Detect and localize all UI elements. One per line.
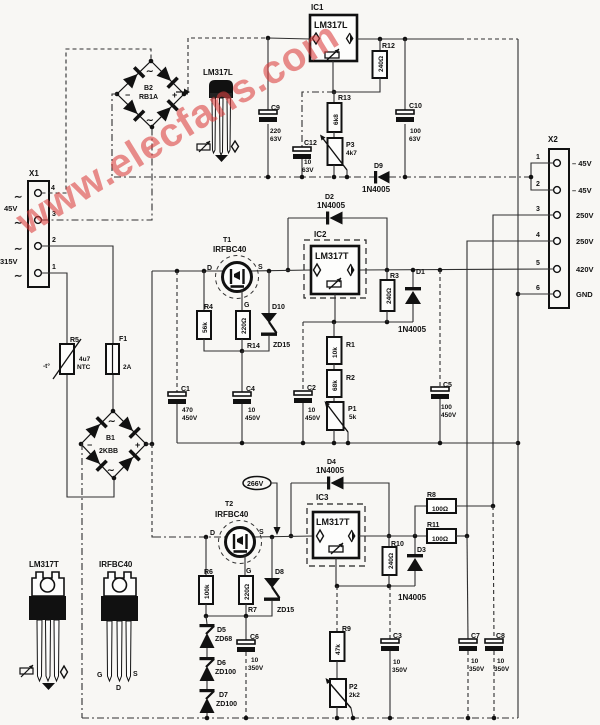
- svg-text:C7: C7: [471, 633, 480, 640]
- junction P2 wiper: [351, 716, 356, 721]
- capacitor C4 10/450V: [233, 351, 261, 443]
- svg-text:3: 3: [536, 206, 540, 213]
- junction C6 bottom: [244, 716, 249, 721]
- svg-text:RB1A: RB1A: [139, 94, 158, 101]
- B2 diode upper-right: [156, 66, 179, 89]
- svg-text:C5: C5: [443, 382, 452, 389]
- svg-text:100Ω: 100Ω: [432, 506, 448, 513]
- junction D4 anode on IC3 output: [387, 534, 392, 539]
- junction R8 right on pin3 riser: [491, 504, 496, 509]
- svg-text:-t°: -t°: [43, 362, 50, 370]
- svg-text:D1: D1: [416, 269, 425, 276]
- wire X2 pin6 GND: [518, 293, 554, 295]
- junction C12 bottom on rail: [300, 175, 305, 180]
- wire middle ground rail: [177, 442, 518, 444]
- svg-text:D: D: [210, 530, 215, 537]
- svg-text:1: 1: [52, 264, 56, 271]
- wire X1 pin1 to R5: [42, 273, 68, 344]
- LM317T package output arrow: [42, 683, 55, 690]
- svg-text:IC2: IC2: [314, 230, 327, 239]
- svg-text:D8: D8: [275, 569, 284, 576]
- svg-text:LM317T: LM317T: [29, 560, 59, 569]
- junction D2 cathode on IC2 input: [286, 268, 291, 273]
- svg-text:4u7: 4u7: [79, 356, 91, 363]
- svg-text:D7: D7: [219, 692, 228, 699]
- wire T2 drain rail: [154, 536, 226, 538]
- LM317L package adjust icon: [197, 144, 210, 150]
- svg-text:C10: C10: [409, 103, 422, 110]
- svg-text:2: 2: [536, 181, 540, 188]
- svg-text:D5: D5: [217, 627, 226, 634]
- svg-text:4: 4: [536, 232, 540, 239]
- IC1 adjust icon: [325, 52, 339, 58]
- svg-text:R8: R8: [427, 492, 436, 499]
- LM317T package input diamond: [61, 666, 68, 678]
- svg-text:ZD68: ZD68: [215, 636, 232, 643]
- resistor R5 NTC 4u7: [43, 337, 91, 379]
- svg-text:315V: 315V: [0, 257, 18, 266]
- svg-text:100Ω: 100Ω: [432, 536, 448, 543]
- svg-text:GND: GND: [576, 290, 593, 299]
- junction R3 bottom: [385, 320, 390, 325]
- junction C3 bottom: [388, 716, 393, 721]
- junction P1 bottom: [332, 441, 337, 446]
- junction C9 top: [266, 36, 271, 41]
- zener D10 ZD15: [242, 271, 290, 351]
- svg-text:10: 10: [304, 159, 312, 166]
- svg-text:∼: ∼: [14, 244, 22, 255]
- junction B1 right: [144, 442, 149, 447]
- svg-text:∼: ∼: [146, 66, 154, 76]
- potentiometer P3 4k7: [320, 135, 357, 178]
- svg-text:G: G: [246, 568, 252, 575]
- svg-text:R13: R13: [338, 95, 351, 102]
- potentiometer P1 5k: [325, 401, 357, 443]
- resistor R9 47k: [330, 586, 351, 679]
- transistor IRFBC40 TO-220 package drawing: [97, 560, 138, 692]
- svg-text:∼: ∼: [107, 465, 115, 475]
- svg-text:250V: 250V: [576, 211, 594, 220]
- IC2 output diamond: [351, 264, 355, 276]
- junction B2 left: [115, 92, 120, 97]
- junction C7 bottom: [466, 716, 471, 721]
- svg-text:1: 1: [536, 154, 540, 161]
- junction R6 top on drain rail: [204, 535, 209, 540]
- zener D6 ZD100: [200, 657, 237, 689]
- svg-text:6: 6: [536, 285, 540, 292]
- capacitor C2 10/450V: [294, 322, 321, 443]
- svg-text:68k: 68k: [332, 380, 339, 391]
- junction C8 bottom: [492, 716, 497, 721]
- diode D2 1N4005 across IC2: [288, 194, 387, 270]
- wire X1 pin3 to bridge B2 AC bottom: [42, 128, 153, 220]
- resistor R11 100R: [427, 522, 467, 543]
- svg-text:350V: 350V: [494, 666, 510, 673]
- diode D9 1N4005: [362, 163, 391, 194]
- svg-text:220Ω: 220Ω: [241, 318, 248, 334]
- junction GND riser / middle rail: [516, 441, 521, 446]
- resistor R12 240R: [334, 39, 395, 92]
- junction C9 bottom on rail: [266, 175, 271, 180]
- junction P3 wiper on rail: [345, 175, 350, 180]
- svg-text:350V: 350V: [469, 666, 485, 673]
- junction R10 bottom: [387, 584, 392, 589]
- svg-text:63V: 63V: [409, 136, 421, 143]
- capacitor C6 10/350V: [237, 616, 264, 718]
- svg-text:−: −: [87, 440, 92, 450]
- svg-text:10: 10: [393, 659, 401, 666]
- svg-text:C1: C1: [181, 386, 190, 393]
- svg-text:220Ω: 220Ω: [244, 584, 251, 600]
- svg-text:47k: 47k: [335, 644, 342, 655]
- svg-text:ZD100: ZD100: [215, 669, 236, 676]
- wire B1 plus node riser up to T1 drain rail: [146, 271, 152, 444]
- svg-text:10: 10: [248, 407, 256, 414]
- LM317L package output arrow: [215, 155, 228, 162]
- transistor T2 IRFBC40: [210, 501, 264, 575]
- junction B2 top: [149, 59, 154, 64]
- svg-text:D: D: [207, 265, 212, 272]
- svg-text:P3: P3: [346, 142, 355, 149]
- junction R6 bottom: [204, 614, 209, 619]
- svg-text:S: S: [259, 529, 264, 536]
- diode D4 1N4005 across IC3: [291, 459, 389, 536]
- svg-text:ZD100: ZD100: [216, 701, 237, 708]
- svg-text:100k: 100k: [204, 584, 211, 599]
- svg-text:X1: X1: [29, 169, 39, 178]
- svg-text:470: 470: [182, 407, 193, 414]
- svg-text:10: 10: [251, 657, 259, 664]
- resistor R6 100k: [199, 537, 213, 616]
- svg-text:ZD15: ZD15: [277, 607, 294, 614]
- node 266V callout: [243, 477, 281, 536]
- junction R14 bottom: [240, 349, 245, 354]
- capacitor C10 100/63V: [396, 39, 422, 177]
- op-amp regulator IC1 LM317L: [310, 3, 357, 61]
- transistor LM317T TO-220 package drawing: [20, 560, 68, 690]
- resistor R14 220R: [236, 311, 260, 351]
- LM317T package adjust icon: [20, 668, 33, 674]
- LM317L package input diamond: [232, 141, 239, 152]
- svg-text:C8: C8: [496, 633, 505, 640]
- resistor R7 220R: [239, 576, 257, 616]
- capacitor C3 10/350V: [381, 586, 408, 718]
- svg-text:1N4005: 1N4005: [398, 325, 427, 334]
- svg-text:ZD15: ZD15: [273, 342, 290, 349]
- svg-text:1N4005: 1N4005: [362, 185, 391, 194]
- resistor R2 68k: [327, 370, 355, 402]
- svg-text:G: G: [244, 302, 250, 309]
- svg-text:10: 10: [471, 658, 479, 665]
- svg-text:420V: 420V: [576, 265, 594, 274]
- junction adjust/R9: [335, 584, 340, 589]
- junction C4 bottom: [240, 441, 245, 446]
- capacitor C9 220/63V: [259, 38, 282, 177]
- svg-text:D6: D6: [217, 660, 226, 667]
- svg-text:10k: 10k: [332, 347, 339, 358]
- junction GND riser / pin6: [516, 292, 521, 297]
- svg-text:5k: 5k: [349, 414, 357, 421]
- svg-text:D2: D2: [325, 194, 334, 201]
- capacitor C1 470/450V: [168, 271, 198, 443]
- svg-text:10: 10: [497, 658, 505, 665]
- wire B1 plus riser down to T2 drain rail: [152, 444, 154, 537]
- svg-text:56k: 56k: [202, 322, 209, 333]
- transistor T1 IRFBC40: [207, 237, 263, 309]
- svg-text:−: −: [125, 90, 130, 100]
- svg-text:LM317T: LM317T: [315, 251, 349, 261]
- svg-text:250V: 250V: [576, 237, 594, 246]
- svg-text:IRFBC40: IRFBC40: [99, 560, 133, 569]
- svg-text:∼: ∼: [14, 271, 22, 282]
- svg-text:C2: C2: [307, 385, 316, 392]
- svg-text:T1: T1: [223, 237, 231, 244]
- svg-text:63V: 63V: [302, 167, 314, 174]
- svg-text:6k8: 6k8: [333, 114, 340, 125]
- junction bracket / rail: [529, 175, 534, 180]
- wire B2 plus to IC1 input: [184, 38, 268, 94]
- junction R11 right on pin4 riser: [465, 534, 470, 539]
- wire IC2 adjust rail: [303, 321, 413, 323]
- svg-text:D10: D10: [272, 304, 285, 311]
- junction D2 anode on IC2 output: [385, 268, 390, 273]
- wire T2 gate down: [244, 554, 246, 576]
- wire X2 pin5 420V from IC2 output: [359, 269, 554, 270]
- fuse F1 2A: [106, 336, 132, 374]
- junction D1 top on output: [411, 268, 416, 273]
- junction B1 left: [79, 442, 84, 447]
- svg-text:P1: P1: [348, 406, 357, 413]
- svg-text:R9: R9: [342, 626, 351, 633]
- IC3 output diamond: [352, 530, 356, 542]
- svg-text:D: D: [116, 685, 121, 692]
- wire IC1 output to GND riser: [357, 38, 460, 40]
- svg-text:2KBB: 2KBB: [99, 448, 118, 455]
- wire B1 minus down to ground rail: [81, 444, 82, 718]
- svg-text:R2: R2: [346, 375, 355, 382]
- junction C1 top on drain rail: [175, 269, 180, 274]
- svg-text:450V: 450V: [245, 415, 261, 422]
- svg-text:R3: R3: [390, 273, 399, 280]
- svg-text:+: +: [135, 440, 140, 450]
- svg-text:– 45V: – 45V: [572, 186, 592, 195]
- junction D4 cathode on IC3 input: [289, 534, 294, 539]
- annotation arrow left of package: [176, 91, 184, 93]
- junction R7 bottom: [244, 614, 249, 619]
- svg-text:1N4005: 1N4005: [317, 201, 346, 210]
- junction B2 right: [182, 92, 187, 97]
- B1 diode upper-right: [118, 416, 141, 439]
- svg-text:10: 10: [308, 407, 316, 414]
- junction C10 top: [403, 37, 408, 42]
- IC2 adjust icon: [327, 281, 341, 287]
- svg-text:X2: X2: [548, 135, 558, 144]
- svg-text:240Ω: 240Ω: [378, 56, 385, 72]
- resistor R10 240R: [383, 536, 404, 586]
- svg-text:B1: B1: [106, 435, 115, 442]
- junction R12 top: [378, 37, 383, 42]
- svg-text:2A: 2A: [123, 364, 132, 371]
- svg-text:266V: 266V: [247, 481, 264, 488]
- wire T1 gate down: [241, 289, 243, 311]
- svg-text:R6: R6: [204, 569, 213, 576]
- svg-text:R1: R1: [346, 342, 355, 349]
- svg-text:1N4005: 1N4005: [316, 466, 345, 475]
- svg-text:LM317T: LM317T: [316, 517, 350, 527]
- junction C5 top / pin5: [438, 268, 443, 273]
- wire minus45V rail from B2 minus: [112, 94, 374, 177]
- svg-text:IC1: IC1: [311, 3, 324, 12]
- wire X1 pin2 to fuse F1 to bridge B1 AC top: [42, 246, 114, 344]
- junction B2 bottom: [150, 125, 155, 130]
- svg-text:R10: R10: [391, 541, 404, 548]
- svg-text:R11: R11: [427, 522, 440, 529]
- capacitor C7 10/350V: [459, 536, 485, 718]
- capacitor C8 10/350V: [485, 506, 510, 718]
- connector X1: [0, 169, 56, 287]
- junction P1 wiper: [346, 441, 351, 446]
- svg-text:P2: P2: [349, 684, 358, 691]
- op-amp regulator IC2 LM317T: [304, 230, 366, 298]
- wire T1 drain rail: [152, 270, 223, 272]
- svg-text:R4: R4: [204, 304, 213, 311]
- potentiometer P2 2k2: [326, 678, 361, 718]
- wire ground bottom rail: [82, 717, 518, 719]
- svg-text:R5: R5: [70, 337, 79, 344]
- svg-text:C6: C6: [250, 634, 259, 641]
- wire IC2 adjust down: [334, 294, 336, 322]
- svg-text:220: 220: [270, 128, 281, 135]
- svg-text:450V: 450V: [182, 415, 198, 422]
- svg-text:NTC: NTC: [77, 364, 91, 371]
- svg-text:G: G: [97, 672, 103, 679]
- junction R4 top on drain rail: [202, 269, 207, 274]
- IC3 input diamond: [317, 530, 324, 542]
- bridge rectifier B1 2KBB: [81, 411, 146, 478]
- diode D3 1N4005 output to adj: [398, 536, 427, 602]
- resistor R13 6k8: [328, 92, 351, 138]
- resistor R8 100R: [415, 492, 493, 536]
- wire X2 pin4 250V: [467, 241, 554, 536]
- svg-text:2: 2: [52, 237, 56, 244]
- svg-text:D3: D3: [417, 547, 426, 554]
- wire ground riser (GND net to X2 pin6 and IC1 output): [517, 39, 519, 718]
- B1 diode lower-right: [118, 449, 141, 472]
- wire minus45V rail right of D9 to X2 bracket: [389, 176, 531, 178]
- svg-text:IC3: IC3: [316, 493, 329, 502]
- bridge rectifier B2 RB1A: [117, 61, 184, 127]
- svg-text:350V: 350V: [248, 665, 264, 672]
- wire T1 source to IC2 input: [251, 270, 311, 271]
- svg-text:R7: R7: [248, 607, 257, 614]
- B1 diode upper-left: [85, 416, 108, 439]
- diode D1 1N4005 output to adj: [398, 269, 427, 334]
- svg-text:63V: 63V: [270, 136, 282, 143]
- B2 diode lower-left: [123, 99, 146, 122]
- junction D8 top on source wire: [270, 535, 275, 540]
- junction D7 bottom on ground rail: [205, 716, 210, 721]
- junction P3 bottom: [332, 175, 337, 180]
- B2 diode upper-left: [123, 66, 146, 89]
- wire X2 pin3 250V: [493, 215, 554, 506]
- resistor R1 10k: [327, 322, 355, 370]
- junction R1 top: [332, 320, 337, 325]
- junction C10 bottom on rail: [403, 175, 408, 180]
- junction B1 plus: [150, 442, 155, 447]
- junction D3 top / R8 riser on output: [413, 534, 418, 539]
- svg-text:5: 5: [536, 260, 540, 267]
- zener D7 ZD100: [200, 689, 238, 718]
- wire IC1 adjust pin down: [332, 61, 334, 92]
- wire X2 pins1-2 bracket (minus45V): [531, 163, 554, 190]
- svg-text:1N4005: 1N4005: [398, 593, 427, 602]
- svg-text:S: S: [133, 671, 138, 678]
- svg-text:C4: C4: [246, 386, 255, 393]
- connector X2: [536, 135, 594, 308]
- IC2 input diamond: [314, 264, 321, 276]
- wire X1 pin4 to bridge B2 AC top: [42, 49, 152, 193]
- svg-text:C9: C9: [271, 105, 280, 112]
- svg-text:B2: B2: [144, 85, 153, 92]
- svg-text:IRFBC40: IRFBC40: [213, 245, 247, 254]
- B1 diode lower-left: [85, 449, 108, 472]
- svg-text:D9: D9: [374, 163, 383, 170]
- wire IC3 adjust down: [335, 558, 337, 586]
- svg-text:R12: R12: [382, 43, 395, 50]
- svg-text:– 45V: – 45V: [572, 159, 592, 168]
- wire IC3 output: [359, 535, 427, 537]
- IC1 input diamond: [313, 33, 320, 44]
- svg-text:100: 100: [441, 404, 452, 411]
- svg-text:2k2: 2k2: [349, 692, 360, 699]
- capacitor C12 10/63V: [293, 92, 334, 177]
- svg-text:R14: R14: [247, 343, 260, 350]
- svg-text:450V: 450V: [305, 415, 321, 422]
- svg-text:S: S: [258, 264, 263, 271]
- svg-text:F1: F1: [119, 336, 127, 343]
- IC1 output diamond: [350, 33, 354, 44]
- capacitor C5 100/450V: [431, 270, 457, 443]
- svg-text:C12: C12: [304, 140, 317, 147]
- wire IC3 adjust rail: [336, 585, 415, 587]
- junction IC1 adjust node: [332, 90, 337, 95]
- wire T2 source to IC3 input: [254, 536, 313, 537]
- B2 diode lower-right: [156, 99, 179, 122]
- svg-text:IRFBC40: IRFBC40: [215, 510, 249, 519]
- junction C2 bottom: [301, 441, 306, 446]
- IC3 adjust icon: [329, 546, 343, 552]
- svg-text:C3: C3: [393, 633, 402, 640]
- svg-text:∼: ∼: [108, 416, 116, 426]
- resistor R3 240R: [381, 270, 400, 322]
- svg-text:240Ω: 240Ω: [388, 553, 395, 569]
- resistor R4 56k: [197, 271, 242, 351]
- junction B1 bottom: [112, 476, 117, 481]
- svg-text:4k7: 4k7: [346, 150, 357, 157]
- svg-text:D4: D4: [327, 459, 336, 466]
- junction C5 bottom: [438, 441, 443, 446]
- junction D10 top on source wire: [267, 269, 272, 274]
- svg-text:450V: 450V: [441, 412, 457, 419]
- zener D5 ZD68: [200, 616, 233, 657]
- wire R5 to bridge B1 AC bottom: [67, 374, 114, 497]
- zener D8 ZD15: [206, 537, 294, 616]
- transistor LM317L TO-92 package drawing: [176, 68, 239, 162]
- op-amp regulator IC3 LM317T: [307, 493, 365, 566]
- svg-text:240Ω: 240Ω: [386, 288, 393, 304]
- junction B1 top: [111, 409, 116, 414]
- svg-text:100: 100: [410, 128, 421, 135]
